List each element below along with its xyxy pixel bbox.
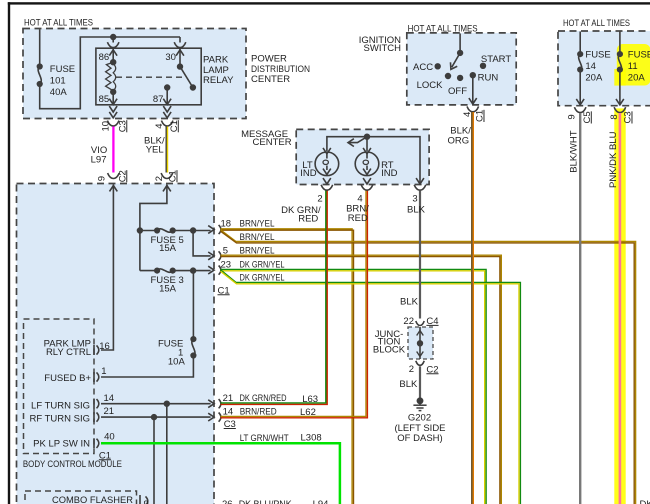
wire BRN/YEL circuit from pin 18	[221, 229, 354, 504]
connector C3 cavity 10 cup	[107, 121, 119, 126]
wire fuse3 to fuse1	[192, 271, 194, 339]
fuse F101 40A	[38, 67, 41, 85]
wire VIO L97	[112, 127, 114, 173]
relay pin 85	[111, 90, 116, 95]
svg-text:C4: C4	[426, 316, 438, 327]
svg-text:1: 1	[101, 366, 106, 377]
MC pin 3 cup	[414, 185, 426, 190]
svg-text:BRN/YEL: BRN/YEL	[240, 246, 275, 257]
relay pin 30 switch	[179, 48, 181, 66]
svg-text:CENTER: CENTER	[251, 74, 290, 85]
svg-text:3: 3	[412, 194, 417, 205]
svg-text:20A: 20A	[628, 73, 646, 84]
node feed split	[111, 35, 116, 40]
svg-text:9: 9	[567, 114, 578, 119]
contact RUN	[470, 73, 475, 78]
svg-text:21: 21	[223, 393, 234, 404]
junction block internal	[419, 327, 421, 359]
svg-text:40A: 40A	[50, 87, 68, 98]
wire BRN/YEL from pin 5	[221, 255, 502, 504]
svg-text:BRN/YEL: BRN/YEL	[240, 219, 275, 230]
relay pin 86	[112, 48, 114, 62]
wire RUN output	[472, 75, 474, 104]
svg-text:14: 14	[223, 406, 234, 417]
svg-text:L97: L97	[91, 155, 107, 166]
wire fuse1 to FUSED B+ pin 1	[101, 356, 193, 378]
svg-text:BLK: BLK	[400, 296, 419, 307]
node MC bus	[365, 134, 370, 139]
svg-text:14: 14	[104, 393, 115, 404]
svg-text:87: 87	[153, 94, 164, 105]
fuse F11 20A	[619, 32, 621, 54]
svg-text:BLOCK: BLOCK	[373, 345, 406, 356]
svg-text:BLK/WHT: BLK/WHT	[569, 130, 580, 172]
wire BRN/YEL branch 2	[221, 230, 636, 504]
fuse F5 15A	[140, 230, 157, 232]
svg-text:21: 21	[104, 406, 115, 417]
svg-text:20A: 20A	[585, 73, 603, 84]
message center internals	[315, 134, 426, 190]
highlight band on PNK/DK BLU wire	[614, 108, 625, 504]
svg-text:LF TURN SIG: LF TURN SIG	[31, 400, 90, 411]
svg-text:OF DASH): OF DASH)	[397, 433, 442, 444]
svg-text:CENTER: CENTER	[253, 137, 292, 148]
svg-text:C3: C3	[117, 120, 128, 132]
svg-text:BLK: BLK	[399, 379, 418, 390]
svg-text:30: 30	[165, 52, 176, 63]
wire fuse101 feed path	[39, 29, 41, 66]
svg-text:16: 16	[99, 341, 110, 352]
wire LF branch down	[166, 404, 168, 504]
svg-text:IND: IND	[300, 168, 317, 179]
svg-text:BRN/RED: BRN/RED	[240, 406, 277, 417]
svg-text:10: 10	[100, 121, 111, 132]
svg-text:C2: C2	[426, 364, 438, 375]
pin 1 FUSED B+	[93, 372, 95, 382]
border frame top	[8, 2, 650, 4]
svg-text:SWITCH: SWITCH	[364, 43, 402, 54]
connector C2 cavity 9 cup	[108, 173, 120, 178]
svg-text:2: 2	[154, 176, 165, 181]
BCM exit pin 21 connector	[208, 400, 214, 408]
svg-text:C1: C1	[169, 120, 180, 132]
svg-text:DK GRN/YEL: DK GRN/YEL	[240, 273, 285, 284]
svg-text:85: 85	[99, 94, 110, 105]
svg-text:ORG: ORG	[447, 136, 469, 147]
node fuse1 tap	[191, 268, 196, 273]
svg-text:15A: 15A	[159, 243, 177, 254]
power distribution center box	[23, 29, 246, 119]
svg-text:14: 14	[585, 61, 596, 72]
wire BLK/WHT	[579, 113, 581, 504]
svg-text:C1: C1	[475, 110, 486, 122]
contact OFF	[458, 76, 463, 81]
highlight blob on FUSE 11 text	[617, 44, 650, 86]
svg-text:RLY CTRL: RLY CTRL	[46, 347, 91, 358]
connector chevrons below relay pin 85	[109, 106, 117, 112]
fuse F1 10A	[192, 339, 195, 356]
connector C1 cavity 4 cup	[467, 106, 479, 111]
svg-text:26: 26	[222, 499, 233, 504]
svg-text:C1: C1	[218, 285, 230, 296]
wire DK GRN/YEL from pin 23	[221, 269, 487, 504]
svg-text:C1: C1	[168, 170, 179, 182]
svg-text:HOT AT ALL TIMES: HOT AT ALL TIMES	[408, 23, 478, 34]
svg-text:DK GRN/YEL: DK GRN/YEL	[240, 259, 285, 270]
svg-text:COMBO FLASHER: COMBO FLASHER	[52, 495, 133, 504]
lamp LT IND	[315, 152, 339, 176]
svg-text:G202: G202	[408, 412, 431, 423]
wire BRN/RED L62	[221, 191, 368, 418]
svg-text:C3: C3	[224, 419, 236, 430]
junction block box	[408, 327, 433, 359]
node LF branch	[164, 401, 169, 406]
svg-text:BODY CONTROL MODULE: BODY CONTROL MODULE	[23, 459, 122, 470]
svg-text:2: 2	[317, 194, 322, 205]
svg-text:10A: 10A	[168, 357, 186, 368]
svg-text:4: 4	[462, 112, 473, 117]
pin 16 PARK LMP RLY CTRL	[93, 345, 95, 355]
lamp RT IND	[355, 152, 379, 176]
wire RT drop	[366, 137, 368, 151]
wire LT GRN/WHT L308	[101, 443, 340, 504]
svg-text:L94: L94	[313, 499, 329, 504]
right fuse box (hot at all times)	[558, 31, 650, 106]
wire PNK/DK BLU highlighted	[619, 113, 622, 504]
svg-text:8: 8	[609, 114, 620, 119]
node pin5 branch	[191, 228, 196, 233]
svg-text:L308: L308	[301, 432, 322, 443]
relay coil	[106, 62, 114, 92]
wire DK GRN/YEL branch 2	[221, 270, 521, 504]
wire MC top bus	[327, 137, 420, 185]
combo flasher pin 9	[139, 495, 141, 504]
svg-text:C2: C2	[117, 170, 128, 182]
relay pin 87	[165, 85, 170, 90]
svg-text:23: 23	[221, 259, 232, 270]
wire BLK/ORG	[471, 112, 473, 504]
svg-text:DK GRN/RED: DK GRN/RED	[240, 393, 287, 404]
svg-text:4: 4	[154, 124, 165, 129]
svg-text:22: 22	[403, 316, 414, 327]
directional arrow	[350, 137, 368, 143]
MC pin 4 cup	[361, 185, 373, 190]
fuse F14 20A	[579, 32, 581, 54]
BCM inner function box	[24, 319, 95, 454]
svg-text:LT GRN/WHT: LT GRN/WHT	[240, 433, 289, 444]
svg-text:PNK/DK BLU: PNK/DK BLU	[608, 131, 619, 188]
combo flasher box	[25, 491, 137, 504]
switch arm toward LOCK	[452, 53, 460, 67]
svg-text:START: START	[481, 54, 511, 65]
svg-text:RED: RED	[298, 214, 318, 225]
svg-text:11: 11	[628, 61, 638, 72]
wire DK GRN/RED L63	[221, 191, 328, 405]
svg-text:40: 40	[104, 432, 115, 443]
contact LOCK	[446, 74, 451, 79]
body control module box	[17, 184, 215, 504]
svg-text:RED: RED	[348, 213, 368, 224]
fuse F3 15A	[140, 270, 157, 272]
svg-text:101: 101	[50, 76, 66, 87]
connector C4 cavity 22 cup	[416, 321, 424, 326]
node fuse5 tap	[138, 228, 143, 233]
svg-text:9: 9	[97, 176, 108, 181]
svg-text:L63: L63	[302, 394, 318, 405]
svg-text:BLK: BLK	[407, 204, 426, 215]
connector C1 cavity 2 cup	[161, 173, 173, 178]
svg-text:RF TURN SIG: RF TURN SIG	[29, 413, 90, 424]
wire to pin 5 exit	[193, 231, 211, 256]
BCM exit pin 18 connector	[208, 226, 214, 234]
svg-text:HOT AT ALL TIMES: HOT AT ALL TIMES	[24, 18, 93, 29]
BCM entry arrow BLK/YEL	[140, 185, 167, 271]
svg-text:L62: L62	[300, 407, 316, 418]
connector C1 cavity 4 cup	[161, 121, 173, 126]
BCM exit pin 14 connector	[208, 413, 214, 421]
connector C2 cavity 2 cup	[416, 361, 424, 366]
wire drop to relay pin 30	[179, 37, 181, 43]
wire RF branch down	[153, 417, 155, 504]
BCM entry arrow VIO	[101, 185, 113, 351]
svg-text:5: 5	[223, 246, 228, 257]
svg-text:FUSE: FUSE	[585, 50, 610, 61]
svg-text:18: 18	[221, 219, 232, 230]
message center box	[296, 129, 429, 184]
svg-text:FUSED B+: FUSED B+	[44, 373, 91, 384]
svg-text:15A: 15A	[159, 283, 177, 294]
border frame left	[8, 2, 10, 504]
connector chevrons below relay pin 87	[163, 106, 171, 112]
BCM exit pin 23 connector	[208, 266, 214, 274]
wire BLK junction block to ground	[419, 366, 421, 400]
svg-text:LOCK: LOCK	[417, 80, 444, 91]
svg-text:86: 86	[99, 52, 110, 63]
MC pin 2 cup	[321, 185, 333, 190]
svg-text:C3: C3	[623, 111, 634, 123]
svg-text:FUSE: FUSE	[50, 64, 75, 75]
right fuse box internals	[574, 32, 625, 113]
park lamp relay box	[96, 48, 201, 105]
MC pin3 arrow	[416, 178, 424, 184]
ignition switch box	[407, 33, 516, 105]
svg-text:OFF: OFF	[448, 86, 467, 97]
svg-text:RELAY: RELAY	[203, 75, 234, 86]
svg-text:IND: IND	[381, 168, 398, 179]
wire BLK from MC pin 3	[419, 191, 421, 319]
svg-text:2: 2	[409, 364, 414, 375]
svg-text:HOT AT ALL TIMES: HOT AT ALL TIMES	[563, 18, 630, 29]
svg-text:ACC: ACC	[413, 62, 433, 73]
svg-text:PK LP SW IN: PK LP SW IN	[33, 439, 90, 450]
svg-text:DK BLU/PNK: DK BLU/PNK	[239, 499, 293, 504]
pin 14 LF TURN SIG	[93, 399, 95, 409]
svg-text:DK: DK	[640, 499, 650, 504]
contact START	[481, 63, 486, 68]
pin 21 RF TURN SIG	[93, 412, 95, 422]
ignition switch internals	[435, 34, 485, 112]
connector C5 cavity 9 cup	[574, 107, 586, 112]
highlight patch at fuse 11	[614, 69, 625, 86]
pin 40 PK LP SW IN	[93, 438, 95, 448]
svg-text:BRN/YEL: BRN/YEL	[240, 232, 275, 243]
contact ACC	[435, 64, 440, 69]
svg-text:YEL: YEL	[146, 145, 164, 156]
wire drop to relay pin 86	[112, 37, 114, 43]
relay coil to switch dashed link	[116, 76, 183, 78]
svg-text:9: 9	[144, 499, 149, 504]
node RF branch	[152, 415, 157, 420]
BCM exit pin 5 connector	[208, 252, 214, 260]
svg-text:C5: C5	[582, 111, 593, 123]
wire BLK/YEL relay 87 to BCM	[166, 127, 168, 173]
ground G202	[413, 398, 426, 411]
svg-text:RUN: RUN	[478, 73, 499, 84]
svg-text:FUSE: FUSE	[628, 50, 650, 61]
connector C3 cavity 8 cup	[614, 107, 626, 112]
